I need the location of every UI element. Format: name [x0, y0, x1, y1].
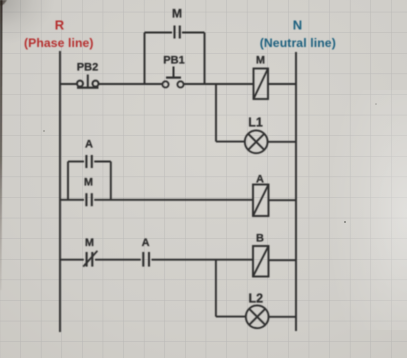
svg-text:B: B	[256, 233, 264, 245]
svg-text:PB1: PB1	[163, 55, 184, 67]
svg-text:(Phase line): (Phase line)	[24, 36, 94, 50]
svg-text:M: M	[172, 7, 182, 21]
svg-text:(Neutral line): (Neutral line)	[260, 36, 336, 50]
svg-text:M: M	[85, 237, 94, 249]
svg-text:L2: L2	[249, 292, 264, 306]
svg-text:N: N	[293, 17, 302, 32]
svg-text:L1: L1	[248, 116, 263, 130]
svg-text:A: A	[85, 139, 93, 151]
svg-text:A: A	[256, 174, 264, 186]
svg-text:M: M	[256, 55, 265, 67]
svg-text:A: A	[142, 237, 150, 249]
svg-text:M: M	[84, 177, 93, 189]
svg-text:R: R	[55, 17, 65, 32]
svg-text:PB2: PB2	[77, 62, 98, 74]
